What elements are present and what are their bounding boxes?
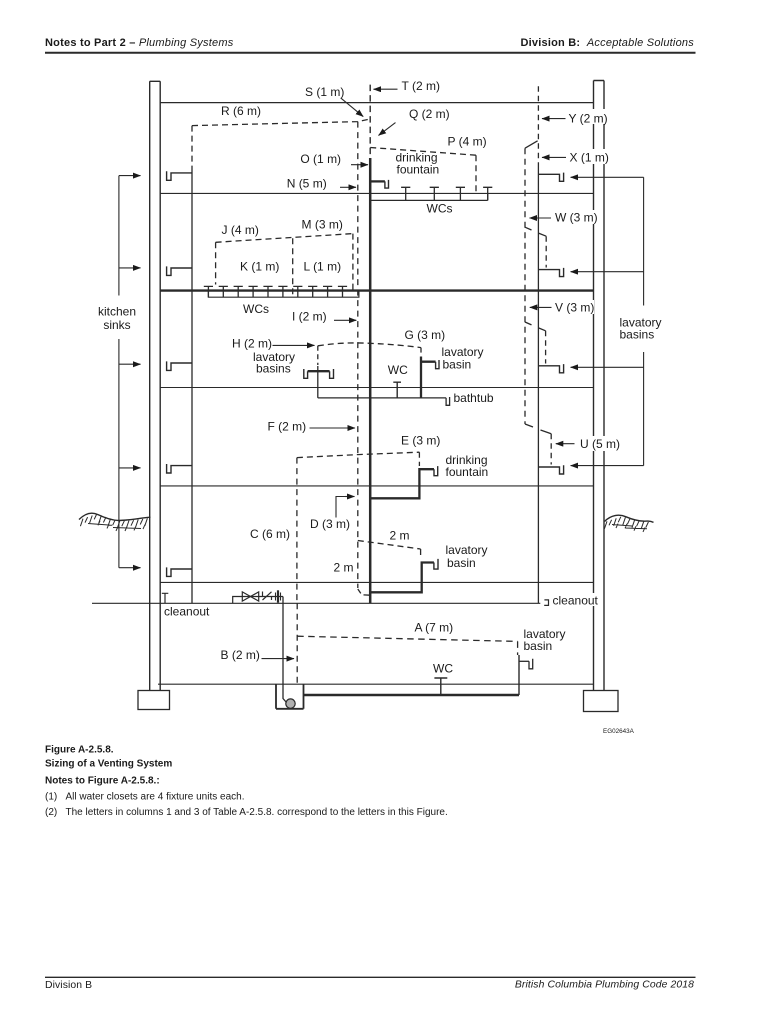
svg-text:WCs: WCs (427, 202, 453, 216)
svg-text:cleanout: cleanout (164, 605, 210, 619)
svg-text:basin: basin (524, 639, 553, 653)
svg-text:2 m: 2 m (390, 529, 410, 543)
vent M right leg (352, 234, 354, 290)
svg-text:The letters in columns 1 and 3: The letters in columns 1 and 3 of Table … (66, 807, 448, 818)
sump pump (286, 699, 295, 708)
sump pit (276, 684, 304, 709)
svg-text:British Columbia Plumbing Code: British Columbia Plumbing Code 2018 (515, 980, 694, 991)
svg-text:(1): (1) (45, 792, 57, 803)
vent A run (297, 636, 517, 655)
svg-text:C (6 m): C (6 m) (250, 527, 290, 541)
svg-text:basin: basin (443, 357, 472, 371)
svg-text:V (3 m): V (3 m) (555, 301, 594, 315)
svg-text:Division B: Division B (45, 980, 92, 991)
WC branch floor 2 (370, 199, 488, 201)
svg-text:2 m: 2 m (334, 561, 354, 575)
WC floor 4 (393, 382, 401, 398)
WC 8 floor 3 (308, 286, 317, 297)
svg-text:M (3 m): M (3 m) (302, 218, 343, 232)
svg-text:H (2 m): H (2 m) (232, 337, 272, 351)
svg-text:lavatory: lavatory (446, 543, 488, 557)
kitchen sink pointer arrow (119, 467, 141, 469)
WC 4 floor 3 (249, 286, 258, 297)
lavatory U supply line with arrow (571, 465, 644, 467)
label Q (2 m) with arrow (379, 123, 396, 136)
header rule (45, 52, 696, 54)
WC 1 floor 2 (401, 187, 410, 200)
building sewer (heavy) (304, 694, 520, 696)
svg-text:EG02643A: EG02643A (603, 728, 635, 735)
label cleanout right (551, 593, 597, 606)
label B (2 m) with arrow (262, 658, 295, 660)
building drain horizontal (92, 602, 540, 604)
check valve (263, 592, 272, 601)
label N (5 m) with arrow (340, 186, 356, 188)
long vent from R down left of stack (357, 122, 359, 588)
cleanout right symbol (544, 600, 548, 606)
svg-text:B (2 m): B (2 m) (221, 648, 260, 662)
lavatory fixture X (538, 173, 563, 182)
svg-text:L (1 m): L (1 m) (304, 260, 342, 274)
svg-text:F (2 m): F (2 m) (268, 420, 307, 434)
vent H/G run (318, 343, 421, 348)
basement lavatory basin waste (518, 655, 520, 695)
kitchen sink waste stack (191, 167, 193, 604)
svg-text:K (1 m): K (1 m) (240, 260, 279, 274)
svg-text:All water closets are 4 fixtur: All water closets are 4 fixture units ea… (66, 792, 245, 803)
WC 3 floor 2 (456, 187, 465, 200)
label X (1 m) with arrow (567, 149, 608, 164)
floor 6 line (160, 581, 593, 583)
footer rule (45, 976, 696, 978)
floor 5 line (160, 485, 593, 487)
drinking fountain floor 5 (370, 469, 434, 498)
vent H drop to lavatory basins (317, 346, 319, 365)
lavatory fixture W (538, 268, 563, 277)
grade line left (79, 513, 151, 520)
svg-text:Division B: Acceptable Soluti: Division B: Acceptable Solutions (520, 37, 694, 49)
vent B vertical (296, 603, 298, 683)
svg-text:O (1 m): O (1 m) (300, 152, 341, 166)
lavatory V supply line with arrow (571, 366, 644, 368)
svg-text:fountain: fountain (446, 465, 489, 479)
svg-text:cleanout: cleanout (553, 594, 599, 608)
floor 2 line (160, 192, 593, 194)
basement floor line (158, 683, 594, 685)
WC 7 floor 3 (293, 286, 302, 297)
svg-text:X (1 m): X (1 m) (570, 151, 609, 165)
twin lavatory waste pipe (317, 366, 319, 398)
right lavatory waste stack (537, 164, 539, 603)
vent U jog (525, 424, 551, 434)
kitchen sink fixture 2 (167, 266, 192, 275)
vent J left leg (215, 242, 217, 284)
kitchen sink pointer arrow (119, 175, 141, 177)
kitchen sink pointer arrow (119, 267, 141, 269)
cleanout left symbol (162, 593, 169, 603)
svg-text:WCs: WCs (243, 302, 269, 316)
svg-text:Notes to Figure A-2.5.8.:: Notes to Figure A-2.5.8.: (45, 776, 160, 787)
long vent bottom jog into stack (358, 589, 370, 595)
left wall (150, 81, 161, 690)
svg-text:T (2 m): T (2 m) (402, 79, 440, 93)
twin lavatory basins floor 4 (308, 370, 330, 372)
label S (1 m) with arrow (341, 98, 364, 117)
svg-text:fountain: fountain (397, 163, 440, 177)
svg-text:basin: basin (447, 556, 476, 570)
lavatory basins bracket line (643, 177, 645, 465)
vent J/M top run (216, 234, 353, 243)
svg-text:Notes to Part 2 – Plumbing Sys: Notes to Part 2 – Plumbing Systems (45, 37, 234, 49)
vent P run (370, 148, 476, 195)
vent V drop (545, 331, 547, 364)
kitchen sink waste stack vent (dashed, R) (191, 126, 193, 167)
label F (2 m) with arrow (310, 427, 356, 429)
kitchen sink pointer arrow (119, 567, 141, 569)
label Y (2 m) with arrow (566, 109, 609, 124)
label V (3 m) with arrow (553, 300, 594, 314)
WC 6 floor 3 (278, 286, 287, 297)
basement WC (434, 678, 447, 695)
vent C vertical (296, 458, 298, 604)
WC 3 floor 3 (234, 286, 243, 297)
kitchen sinks bracket line (118, 176, 120, 568)
roof line (160, 102, 593, 104)
svg-text:A (7 m): A (7 m) (415, 621, 454, 635)
vent V jog (525, 322, 546, 331)
svg-text:D (3 m): D (3 m) (310, 517, 350, 531)
vent U drop (550, 434, 552, 465)
main soil stack (369, 158, 372, 603)
svg-text:Q (2 m): Q (2 m) (409, 107, 450, 121)
svg-text:E (3 m): E (3 m) (401, 434, 440, 448)
WC 1 floor 3 (204, 286, 213, 297)
label H (2 m) with arrow (273, 344, 315, 346)
svg-text:R (6 m): R (6 m) (221, 104, 261, 118)
right branch vent top jog (525, 141, 538, 148)
label U (5 m) with arrow (578, 436, 620, 451)
lavatory X supply line with arrow (571, 176, 644, 178)
WC 2 floor 3 (219, 286, 228, 297)
kitchen sink fixture 4 (167, 464, 192, 473)
right lavatory stack vent top (dashed) (537, 86, 539, 164)
vent W drop (545, 236, 547, 267)
svg-text:Figure A-2.5.8.: Figure A-2.5.8. (45, 744, 114, 755)
drinking fountain floor2 (370, 180, 385, 182)
vent E drop to drinking fountain (418, 452, 420, 466)
bathtub branch floor 4 (318, 397, 446, 399)
WC branch floor 3 (208, 291, 359, 298)
label W (3 m) with arrow (553, 210, 596, 224)
right wall footing (584, 691, 619, 712)
svg-text:U (5 m): U (5 m) (580, 437, 620, 451)
svg-text:I (2 m): I (2 m) (292, 310, 327, 324)
grade line right (605, 515, 654, 522)
main soil stack vent top (dashed) (369, 85, 371, 158)
vent G drop to lavatory basin (420, 348, 422, 356)
kitchen sink fixture 3 (167, 361, 192, 370)
svg-text:N (5 m): N (5 m) (287, 177, 327, 191)
gate valve (242, 592, 258, 601)
bathtub trap (446, 397, 450, 405)
vent W jog (525, 227, 546, 236)
svg-text:J (4 m): J (4 m) (222, 223, 259, 237)
svg-text:Sizing of a Venting System: Sizing of a Venting System (45, 759, 172, 770)
label I (2 m) with arrow (334, 319, 356, 321)
right side branch vent vertical (524, 148, 526, 424)
lavatory W supply line with arrow (571, 271, 644, 273)
floor 4 line (160, 387, 593, 389)
WC 2 floor 2 (430, 187, 439, 200)
svg-text:G (3 m): G (3 m) (405, 328, 446, 342)
lavatory basin G floor 4 (421, 357, 436, 398)
svg-text:WC: WC (433, 662, 453, 676)
lavatory fixture V (538, 364, 563, 373)
label O (1 m) with arrow (351, 164, 368, 166)
svg-text:P (4 m): P (4 m) (448, 135, 487, 149)
vent 2m run to lavatory basin (358, 541, 421, 560)
WC 4 floor 2 (483, 187, 492, 200)
floor 3 line (thick WC branch) (160, 289, 593, 291)
WC 9 floor 3 (323, 286, 332, 297)
kitchen sink pointer arrow (119, 363, 141, 365)
vent C/E run (297, 452, 420, 457)
svg-text:(2): (2) (45, 807, 57, 818)
kitchen sink fixture 5 (167, 567, 192, 576)
vent M middle leg (292, 238, 294, 296)
WC 5 floor 3 (263, 286, 272, 297)
svg-text:sinks: sinks (103, 318, 130, 332)
pump discharge bypass line (233, 597, 283, 604)
svg-text:WC: WC (388, 363, 408, 377)
kitchen sink fixture 1 (167, 171, 192, 180)
svg-text:basins: basins (256, 361, 291, 375)
right wall (594, 81, 605, 691)
svg-text:Y (2 m): Y (2 m) (569, 112, 608, 126)
svg-text:bathtub: bathtub (454, 391, 494, 405)
left wall footing (138, 691, 170, 710)
vent R horizontal run (192, 119, 370, 126)
svg-text:W (3 m): W (3 m) (555, 211, 598, 225)
svg-text:basins: basins (620, 328, 655, 342)
lavatory basin floor 6 (370, 563, 434, 593)
lavatory fixture U (538, 465, 563, 474)
union fitting (276, 593, 281, 601)
svg-text:kitchen: kitchen (98, 305, 136, 319)
svg-text:S (1 m): S (1 m) (305, 85, 344, 99)
pump discharge pipe (283, 597, 287, 703)
label T (2 m) with arrow (374, 88, 398, 90)
WC 10 floor 3 (338, 286, 347, 297)
label D (3 m) with bent arrow (336, 497, 347, 518)
